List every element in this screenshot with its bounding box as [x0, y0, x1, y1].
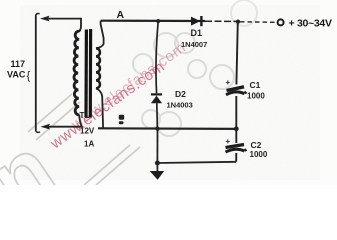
- wire left vertical (AC input side): [35, 16, 37, 131]
- wire bottom rail: [98, 127, 236, 130]
- wire C1 to junction: [235, 96, 237, 129]
- wire top rail dashed to terminal: [240, 21, 277, 24]
- wire top horizontal to transformer: [47, 18, 81, 20]
- wire D2 branch to lower node: [156, 129, 158, 163]
- arrow on top AC lead: [40, 16, 50, 22]
- capacitor C1: [226, 78, 247, 95]
- wire top rail: [101, 20, 205, 22]
- watermark gray letters: [0, 94, 140, 240]
- wire top rail dashed to corner: [205, 20, 237, 22]
- wire C2 top: [235, 129, 237, 143]
- watermark red text www.elecfans.com: [47, 39, 190, 153]
- capacitor C2: [226, 137, 247, 152]
- wire down to primary: [80, 19, 81, 31]
- wire D2 to bottom rail: [156, 103, 159, 128]
- junction node A / D2 branch: [156, 19, 160, 23]
- junction top right corner: [236, 20, 240, 24]
- watermark rings: [133, 0, 257, 136]
- junction bottom rail / C branch: [234, 126, 239, 131]
- wire C2 bottom to lower horizontal: [235, 153, 237, 162]
- wire lower horizontal to C2: [157, 162, 236, 163]
- wire C1 branch down: [236, 22, 237, 85]
- label 117 VAC: [7, 59, 26, 80]
- diode D1: [191, 16, 201, 26]
- transformer T1 secondary winding: [96, 48, 100, 88]
- junction ground node: [155, 161, 160, 166]
- junction bottom rail / D2 branch: [155, 127, 159, 131]
- wire secondary bottom lead: [96, 88, 103, 128]
- transformer core: [84, 30, 88, 118]
- stray dots near secondary bottom: [119, 115, 125, 120]
- wire bottom-left corner hook: [36, 131, 40, 133]
- scan noise: [20, 5, 320, 180]
- ground: [150, 163, 164, 180]
- wire bottom horizontal from transformer: [47, 126, 82, 128]
- label T1 12V 1A: [80, 111, 95, 149]
- arrow on bottom AC lead: [41, 124, 51, 130]
- wire top-left corner hook: [36, 14, 39, 16]
- wire D2 branch upper: [156, 21, 158, 93]
- diode D2: [151, 94, 162, 103]
- output terminal: [278, 19, 284, 25]
- transformer T1 primary winding: [74, 31, 80, 115]
- wire primary bottom lead: [79, 115, 82, 127]
- wire secondary top lead: [96, 21, 104, 49]
